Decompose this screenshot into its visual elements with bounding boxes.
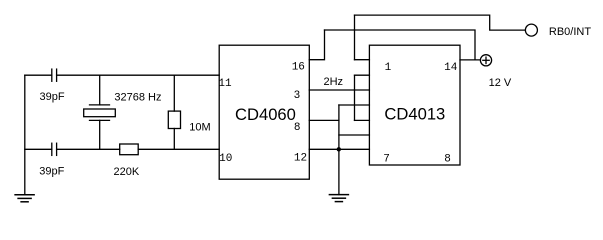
svg-text:CD4060: CD4060 — [235, 105, 296, 124]
svg-text:32768 Hz: 32768 Hz — [114, 91, 161, 103]
wire VDD top run — [325, 30, 476, 60]
svg-text:10: 10 — [219, 153, 232, 165]
svg-text:16: 16 — [292, 62, 305, 74]
resistor R1 10M body — [168, 111, 180, 128]
IC U2 CD4013 box — [369, 45, 460, 165]
wire bottom rail middle segment — [57, 148, 120, 150]
svg-text:7: 7 — [383, 154, 390, 166]
wire 2Hz pin3 to pin3 — [309, 89, 369, 91]
svg-text:8: 8 — [444, 154, 451, 166]
wire CD4013 pin2 stub — [355, 74, 370, 76]
wire 10M bottom lead — [173, 129, 175, 150]
capacitor C2 39pF plates — [51, 143, 53, 155]
wire CD4060 pin8 to ground riser — [309, 119, 339, 121]
svg-text:10M: 10M — [189, 121, 210, 133]
wire ground riser — [338, 105, 340, 195]
svg-text:12 V: 12 V — [489, 77, 512, 89]
IC U1 CD4060 box — [219, 45, 309, 179]
wire crystal top lead — [99, 75, 101, 105]
svg-text:RB0/INT: RB0/INT — [549, 26, 591, 38]
power 12V terminal — [480, 55, 491, 66]
svg-text:14: 14 — [444, 62, 458, 74]
svg-text:3: 3 — [294, 90, 301, 102]
svg-text:39pF: 39pF — [39, 166, 64, 178]
wire CD4013 pin4 stub — [339, 104, 370, 106]
crystal X1 top plate — [90, 104, 110, 106]
wire bottom rail right segment to CD4060 pin 10 — [138, 148, 219, 150]
wire CD4013 pin1 stub — [355, 59, 370, 61]
capacitor C1 39pF plates — [51, 69, 53, 81]
svg-text:11: 11 — [218, 78, 232, 90]
crystal X1 body — [84, 109, 116, 117]
svg-text:CD4013: CD4013 — [384, 105, 445, 124]
junction dot pin12 net — [337, 147, 341, 151]
wire top rail right segment to CD4060 pin 11 — [57, 74, 220, 76]
svg-text:220K: 220K — [114, 166, 140, 178]
svg-text:1: 1 — [385, 62, 392, 74]
wire Q1bar to D1 riser — [354, 75, 356, 120]
wire bottom rail left segment — [25, 148, 52, 150]
wire left rail vertical — [24, 75, 26, 195]
wire 10M top lead — [173, 75, 175, 111]
svg-text:2Hz: 2Hz — [324, 76, 344, 88]
node RB0/INT terminal — [525, 24, 537, 36]
svg-text:39pF: 39pF — [40, 91, 65, 103]
svg-text:8: 8 — [294, 122, 301, 134]
wire CD4060 pin12 to CD4013 pin7 — [309, 148, 369, 150]
svg-text:12: 12 — [294, 153, 307, 165]
wire CD4060 pin16 stub — [309, 30, 324, 60]
wire crystal bottom lead — [99, 120, 101, 149]
resistor R2 220K body — [120, 144, 139, 155]
wire CD4013 pin6 stub — [339, 134, 370, 136]
wire CD4013 pin14 to 12V — [460, 59, 480, 61]
crystal X1 bottom plate — [90, 119, 110, 121]
wire RB0 top run — [355, 15, 526, 30]
ground left — [15, 195, 34, 202]
ground middle — [329, 195, 348, 202]
wire RB0 riser — [354, 15, 356, 60]
wire CD4013 pin5 stub — [355, 119, 370, 121]
wire top rail left segment — [25, 74, 52, 76]
